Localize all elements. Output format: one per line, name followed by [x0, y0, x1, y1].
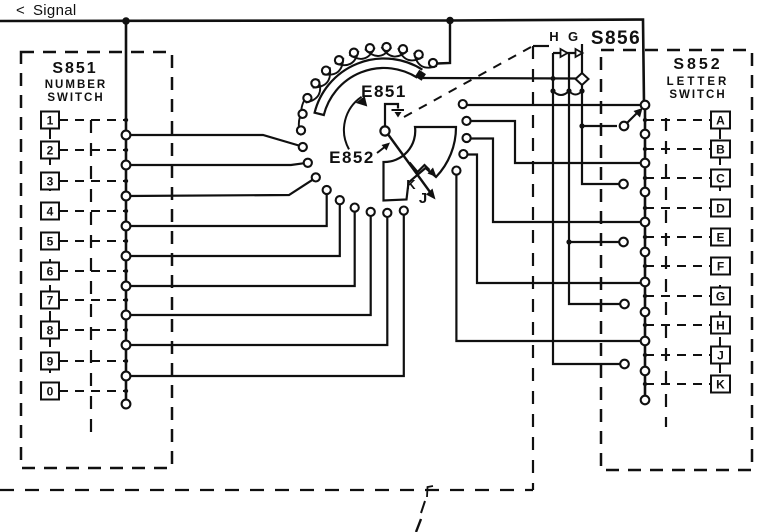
dashed link 6 to column [59, 270, 126, 272]
letter column contact y=222 [641, 218, 650, 227]
number column contact y=315 [122, 311, 131, 320]
number column contact y=376 [122, 372, 131, 381]
contact 15 of rotary ring [323, 186, 331, 194]
terminal box H of S852 [711, 317, 730, 334]
dashed link 8 to column [59, 329, 126, 331]
svg-text:S856: S856 [591, 28, 641, 49]
terminal box 8 of S851 [41, 322, 59, 339]
svg-text:B: B [716, 143, 725, 157]
svg-text:4: 4 [47, 205, 54, 219]
number column contact y=404 [122, 400, 131, 409]
pivot connection bracket [385, 104, 398, 126]
contact 19 of rotary ring [383, 209, 391, 217]
stray mark r [427, 486, 433, 497]
contact 0 of rotary ring [429, 59, 437, 67]
svg-text:8: 8 [47, 324, 54, 338]
letter column contact y=312 [641, 308, 650, 317]
terminal box 4 of S851 [41, 203, 59, 220]
number column contact y=226 [122, 222, 131, 231]
letter column contact y=371 [641, 367, 650, 376]
terminal box 1 of S851 [41, 112, 59, 129]
linkage arcs [553, 91, 582, 95]
contact 11 of rotary ring [297, 126, 305, 134]
wire: drop from signal to homing contact [437, 21, 450, 64]
wire: S851 common column [125, 21, 128, 404]
contact 21 of rotary ring [452, 167, 460, 175]
svg-text:E851: E851 [361, 82, 407, 101]
contact 17 of rotary ring [351, 204, 359, 212]
wire: digit 2 to contact [126, 163, 303, 165]
E851 wiper ring (two concentric arcs) [315, 58, 423, 115]
svg-text:S851: S851 [52, 60, 97, 77]
contact 23 of rotary ring [463, 134, 471, 142]
svg-text:NUMBER: NUMBER [45, 79, 107, 91]
svg-text:D: D [716, 202, 725, 216]
contact 4 of rotary ring [366, 44, 374, 52]
dashed mechanical line inside S851 [90, 120, 92, 433]
wire: diamond shaft [581, 44, 583, 74]
svg-text:1: 1 [47, 114, 54, 128]
dashed link 7 to column [59, 299, 126, 301]
dashed link 4 to column [59, 210, 126, 212]
svg-text:H: H [549, 29, 558, 44]
dashed gang line through letter terminals [719, 129, 721, 377]
wiper arm J with arrowhead [389, 135, 431, 192]
number column contact y=165 [122, 161, 131, 170]
stray slash 1 [421, 501, 425, 513]
node: linkage diamond [579, 88, 584, 93]
dashed link column to C [645, 177, 711, 179]
terminal box D of S852 [711, 200, 730, 217]
wire: G tap to contact [569, 241, 620, 243]
dashed link column to J [645, 354, 711, 356]
contact 10 of rotary ring [299, 110, 307, 118]
node: feed tap at A level [579, 123, 584, 128]
svg-text:SWITCH: SWITCH [47, 92, 104, 104]
number column contact y=345 [122, 341, 131, 350]
dashed link 1 to column [59, 119, 126, 121]
wiper arm K zigzag with arrowhead [410, 163, 430, 173]
garland chain linking unused homing contacts [299, 47, 437, 135]
contact 7 of rotary ring [322, 67, 330, 75]
contact 16 of rotary ring [336, 196, 344, 204]
wire: digit 6 to contact [126, 212, 355, 286]
svg-text:J: J [419, 190, 427, 207]
pivot of wiper E852 [380, 126, 389, 135]
svg-text:E852: E852 [329, 148, 375, 167]
arm contact at J level [620, 360, 629, 369]
contact 24 of rotary ring [462, 117, 470, 125]
contact 25 of rotary ring [459, 100, 467, 108]
letter column contact y=192 [641, 188, 650, 197]
svg-text:Signal: Signal [33, 2, 77, 19]
wire: contact to letter column level 163 [471, 121, 642, 163]
stray slash 2 [416, 519, 421, 532]
dashed link column to K [645, 383, 711, 385]
dashed link 3 to column [59, 180, 126, 182]
wire: digit 8 to contact [126, 217, 387, 345]
contact 5 of rotary ring [350, 49, 358, 57]
dashed gang line through number terminals [49, 129, 51, 383]
terminal box A of S852 [711, 112, 730, 129]
wire: signal bus along top [0, 20, 644, 105]
svg-text:7: 7 [47, 294, 54, 308]
terminal box 6 of S851 [41, 263, 59, 280]
dashed link 5 to column [59, 240, 126, 242]
arm contact at G level [620, 300, 629, 309]
number column contact y=196 [122, 192, 131, 201]
wire: G pole [569, 53, 621, 304]
terminal box E of S852 [711, 229, 730, 246]
svg-text:K: K [716, 378, 725, 392]
svg-text:H: H [716, 319, 725, 333]
arm contact at C level [619, 180, 628, 189]
S851 number switch dashed enclosure [21, 52, 172, 468]
svg-text:G: G [716, 290, 725, 304]
number column contact y=286 [122, 282, 131, 291]
dashed link column to D [645, 207, 711, 209]
letter column contact y=282 [641, 278, 650, 287]
number column contact y=256 [122, 252, 131, 261]
dashed link column to F [645, 265, 711, 267]
contact 13 of rotary ring [304, 159, 312, 167]
wire: contact to letter column level 222 [471, 139, 641, 223]
arm contact at A level [620, 122, 629, 131]
terminal box 9 of S851 [41, 353, 59, 370]
node: linkage H [550, 88, 555, 93]
letter column contact y=134 [641, 130, 650, 139]
contact 12 of rotary ring [299, 143, 307, 151]
arrow from E852 label to wiper [377, 146, 386, 153]
letter column contact y=163 [641, 159, 650, 168]
wire: digit 7 to contact [126, 216, 371, 315]
wire: digit 3 to contact [126, 180, 312, 196]
wire: digit 1 to contact [126, 135, 299, 146]
dashed link column to H [645, 324, 711, 326]
dashed link column to G [645, 295, 711, 297]
terminal box 5 of S851 [41, 233, 59, 250]
contact 6 of rotary ring [335, 56, 343, 64]
E851 rotation direction curved arrow [344, 97, 362, 150]
contact 2 of rotary ring [399, 45, 407, 53]
node: ring wire / H crossing [551, 76, 556, 81]
wire: ring output to S856 diamond [423, 77, 577, 80]
terminal box G of S852 [711, 288, 730, 305]
terminal box F of S852 [711, 258, 730, 275]
wire: tap to arm contact [582, 125, 617, 127]
svg-text:LETTER: LETTER [667, 76, 730, 88]
terminal box J of S852 [711, 347, 730, 364]
letter column contact y=341 [641, 337, 650, 346]
dashed link 2 to column [59, 149, 126, 151]
svg-text:S852: S852 [673, 56, 722, 73]
svg-text:<: < [16, 2, 25, 19]
wire: S852 common column [644, 104, 647, 400]
svg-text:0: 0 [47, 385, 54, 399]
terminal box B of S852 [711, 141, 730, 158]
contact 18 of rotary ring [367, 208, 375, 216]
contact 14 of rotary ring [312, 173, 320, 181]
contact 9 of rotary ring [303, 94, 311, 102]
svg-text:SWITCH: SWITCH [669, 89, 726, 101]
S856 common diamond [576, 73, 589, 85]
node: junction signal/homing contact drop [446, 17, 454, 25]
dashed link 9 to column [59, 360, 126, 362]
terminal box 3 of S851 [41, 173, 59, 190]
letter column contact y=105 [641, 101, 650, 110]
contact 8 of rotary ring [311, 79, 319, 87]
S856 actuator bar with two arrowheads [553, 52, 582, 54]
contact 3 of rotary ring [382, 43, 390, 51]
dashed link column to E [645, 236, 711, 238]
contact 1 of rotary ring [415, 51, 423, 59]
S852 letter switch dashed enclosure [601, 50, 752, 470]
svg-text:K: K [406, 177, 416, 192]
node: linkage G [566, 88, 571, 93]
wire: H pole [553, 53, 620, 364]
svg-text:F: F [717, 260, 724, 274]
terminal box 2 of S851 [41, 142, 59, 159]
wire: contact to letter column level 105 [467, 104, 645, 106]
svg-text:3: 3 [47, 175, 54, 189]
wire: contact to letter column level 341 [456, 175, 641, 341]
node: G tap [566, 239, 571, 244]
number column contact y=135 [122, 131, 131, 140]
svg-text:G: G [568, 29, 578, 44]
letter column contact y=252 [641, 248, 650, 257]
arm contact at E level [619, 238, 628, 247]
arm arrow from A-level contact [628, 112, 639, 123]
svg-text:9: 9 [47, 355, 54, 369]
terminal box 7 of S851 [41, 292, 59, 309]
wire: digit 5 to contact [126, 205, 340, 256]
svg-text:6: 6 [47, 265, 54, 279]
contact 22 of rotary ring [459, 150, 467, 158]
svg-text:5: 5 [47, 235, 54, 249]
wire: diamond to letter-switch feed [582, 84, 620, 184]
svg-text:J: J [717, 349, 724, 363]
solid square cap at ring output [415, 70, 426, 81]
dashed pointer diagonal to pivot bracket [404, 47, 531, 117]
terminal box 0 of S851 [41, 383, 59, 400]
dashed enclosure of dial assembly [532, 46, 534, 490]
svg-text:C: C [716, 172, 725, 186]
svg-text:2: 2 [47, 144, 54, 158]
wire: digit 4 to contact [126, 195, 327, 227]
letter column contact y=400 [641, 396, 650, 405]
dashed link column to A [645, 119, 711, 121]
dashed link column to B [645, 148, 711, 150]
terminal box K of S852 [711, 376, 730, 393]
dashed link 0 to column [59, 390, 126, 392]
node: junction signal/S851 column [122, 17, 130, 25]
dashed mechanical line inside S852 [665, 118, 667, 427]
cam sector outline (white pie) [384, 127, 457, 201]
svg-text:E: E [716, 231, 724, 245]
svg-text:A: A [716, 114, 725, 128]
wire: digit 9 to contact [126, 215, 404, 376]
contact 20 of rotary ring [400, 207, 408, 215]
terminal box C of S852 [711, 170, 730, 187]
wire: contact to letter column level 283 [467, 155, 641, 284]
